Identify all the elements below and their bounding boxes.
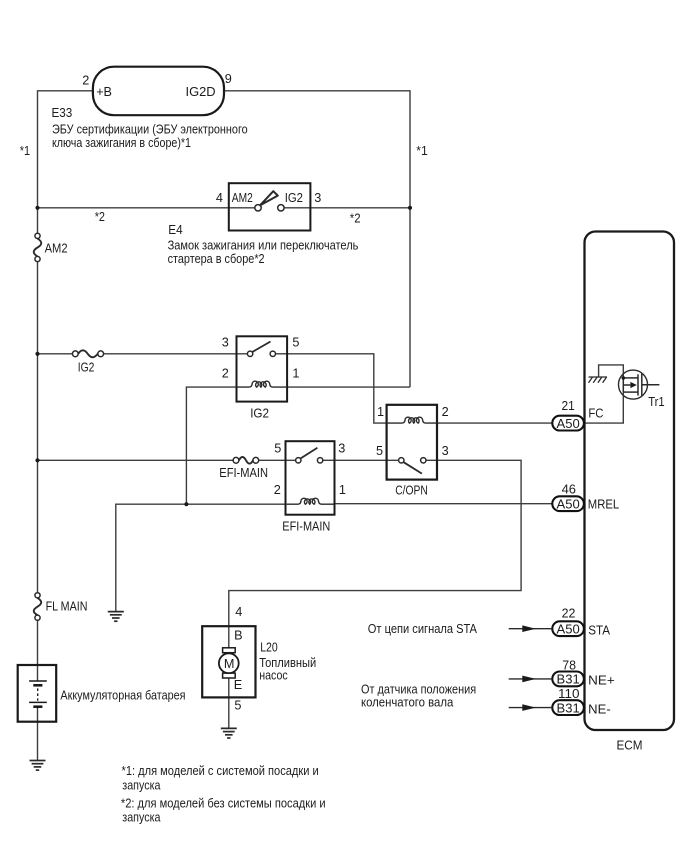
svg-text:*2: *2: [95, 210, 105, 224]
wire EFI-MAIN relay pin 1 to ECM MREL terminal: [335, 503, 554, 505]
relay EFI-MAIN switch: [296, 448, 323, 463]
wire C/OPN pin 3 to fuel pump pin 4: [229, 460, 521, 648]
svg-text:5: 5: [234, 699, 241, 713]
svg-text:2: 2: [274, 483, 281, 497]
svg-text:E33: E33: [52, 106, 73, 120]
svg-text:EFI-MAIN: EFI-MAIN: [282, 520, 330, 534]
ground battery: [30, 761, 46, 771]
wire IG2 relay pin 1 to IG2D rail: [287, 386, 410, 388]
transistor Q Tr1: [619, 370, 660, 399]
svg-text:IG2D: IG2D: [186, 85, 216, 99]
fuel pump L20 box: [202, 626, 255, 697]
wire FL MAIN to battery: [37, 621, 39, 682]
terminal B31 NE+: [552, 672, 584, 687]
wire E4 IG2 pin 3 to node: [284, 207, 410, 209]
ground fuel pump: [221, 728, 237, 738]
relay C/OPN box: [387, 405, 437, 480]
svg-text:IG2: IG2: [285, 191, 303, 205]
fuse EFI-MAIN: [233, 457, 259, 464]
svg-text:1: 1: [292, 366, 299, 380]
ground EFI-MAIN relay: [108, 612, 124, 622]
svg-text:M: M: [224, 657, 235, 671]
svg-text:От датчика положения: От датчика положения: [361, 682, 476, 696]
svg-text:2: 2: [82, 74, 89, 88]
svg-text:E4: E4: [168, 223, 182, 237]
arrow NE- input: [509, 704, 553, 711]
arrow NE+ input: [509, 676, 553, 683]
svg-text:5: 5: [376, 444, 383, 458]
ECM box: [585, 232, 675, 731]
svg-text:L20: L20: [260, 641, 278, 655]
svg-text:78: 78: [562, 658, 576, 672]
svg-text:FL MAIN: FL MAIN: [46, 600, 88, 614]
svg-text:насос: насос: [259, 669, 288, 683]
svg-text:A50: A50: [557, 623, 580, 637]
wire C/OPN coil pin 2 to ECM FC terminal: [437, 422, 553, 424]
wire left rail AM2 to FL MAIN: [37, 262, 39, 593]
svg-text:2: 2: [442, 405, 449, 419]
battery cell plates: [29, 681, 47, 707]
svg-text:110: 110: [558, 687, 580, 701]
svg-text:коленчатого вала: коленчатого вала: [361, 696, 454, 710]
wire C/OPN switch stub right: [426, 459, 437, 461]
wire fuel pump motor to ground: [228, 678, 230, 728]
svg-text:MREL: MREL: [588, 497, 619, 511]
svg-text:Аккумуляторная батарея: Аккумуляторная батарея: [60, 688, 185, 702]
svg-text:9: 9: [225, 72, 232, 86]
svg-text:AM2: AM2: [45, 241, 68, 255]
battery box: [18, 665, 57, 722]
svg-text:B: B: [234, 629, 242, 643]
relay C/OPN coil: [388, 417, 437, 423]
svg-text:запуска: запуска: [122, 778, 161, 792]
svg-text:22: 22: [562, 606, 576, 620]
relay IG2 coil: [237, 381, 288, 387]
svg-text:3: 3: [442, 444, 449, 458]
svg-text:Tr1: Tr1: [648, 395, 665, 409]
svg-text:Замок зажигания или переключат: Замок зажигания или переключатель: [168, 238, 359, 252]
wire EFI-MAIN pin 2 to ground branch: [116, 504, 286, 611]
arrow STA input: [509, 625, 553, 632]
terminal A50 STA: [552, 621, 584, 636]
terminal A50 MREL: [552, 496, 584, 511]
ECU E33 certification ECU box: [93, 67, 224, 116]
svg-text:IG2: IG2: [78, 361, 95, 375]
svg-text:C/OPN: C/OPN: [395, 484, 428, 498]
svg-text:E: E: [234, 678, 242, 692]
svg-text:3: 3: [314, 191, 321, 205]
svg-text:2: 2: [222, 366, 229, 380]
svg-text:4: 4: [216, 191, 223, 205]
svg-text:*2: для моделей без системы по: *2: для моделей без системы посадки и: [121, 796, 326, 810]
wire IG2 fuse branch: [38, 353, 73, 355]
wire EFI-MAIN pin 3 to C/OPN pin 5: [335, 459, 399, 461]
wire IG2 fuse to IG2 relay pin 3: [104, 353, 248, 355]
ignition switch E4 box: [229, 183, 311, 230]
svg-text:стартера в сборе*2: стартера в сборе*2: [168, 252, 265, 266]
fuse IG2: [72, 350, 103, 357]
fuel pump motor: [219, 648, 239, 678]
svg-text:*1: для моделей с системой пос: *1: для моделей с системой посадки и: [122, 764, 319, 778]
wire IG2 relay pin 2 to junction: [186, 387, 236, 504]
relay EFI-MAIN box: [286, 441, 335, 515]
fuse FL MAIN: [34, 593, 42, 621]
terminal B31 NE-: [552, 700, 584, 715]
svg-text:*1: *1: [416, 144, 428, 158]
svg-text:B31: B31: [557, 673, 580, 687]
svg-text:ЭБУ сертификации (ЭБУ электрон: ЭБУ сертификации (ЭБУ электронного: [52, 123, 248, 137]
wire IG2 relay switch stub right: [275, 353, 287, 355]
svg-text:3: 3: [222, 335, 229, 349]
wire FC terminal to transistor source: [584, 392, 624, 423]
svg-text:*2: *2: [350, 212, 361, 226]
wire IG2 relay pin 5 to C/OPN coil pin 1: [287, 354, 388, 423]
svg-text:A50: A50: [557, 498, 580, 512]
terminal A50 FC: [552, 416, 584, 431]
svg-text:5: 5: [274, 441, 281, 455]
svg-text:NE-: NE-: [588, 702, 611, 716]
svg-text:От цепи сигнала STA: От цепи сигнала STA: [368, 622, 478, 636]
svg-text:ключа зажигания в сборе)*1: ключа зажигания в сборе)*1: [52, 136, 191, 150]
svg-text:+B: +B: [96, 85, 112, 99]
relay IG2 box: [237, 336, 288, 401]
node transistor drain dot: [622, 376, 626, 380]
wire IG2D pin 9 down to IG2 relay pin 1: [224, 91, 410, 387]
svg-text:IG2: IG2: [250, 406, 269, 420]
wire EFI-MAIN fuse to relay pin 5: [258, 459, 295, 461]
fuse AM2: [34, 233, 42, 261]
relay IG2 switch: [247, 342, 275, 357]
svg-text:*1: *1: [20, 144, 30, 158]
svg-text:5: 5: [292, 335, 299, 349]
svg-text:1: 1: [377, 405, 384, 419]
svg-text:FC: FC: [588, 407, 603, 421]
svg-text:21: 21: [562, 399, 575, 413]
wire EFI-MAIN relay switch stub right: [323, 459, 335, 461]
svg-text:4: 4: [235, 605, 242, 619]
svg-text:1: 1: [339, 483, 346, 497]
svg-text:B31: B31: [557, 701, 580, 715]
svg-text:ECM: ECM: [617, 739, 643, 753]
wire node AM2 branch to E4 switch: [38, 207, 255, 209]
svg-text:46: 46: [562, 483, 576, 497]
ground chassis inside ECM: [589, 377, 608, 383]
wire +B to left rail: [38, 91, 94, 234]
wire Tr1 drain to internal ground: [599, 365, 624, 378]
svg-text:запуска: запуска: [122, 811, 161, 825]
switch E4 contacts: [255, 191, 284, 211]
wire battery to ground: [37, 707, 39, 761]
svg-text:3: 3: [338, 441, 345, 455]
node junction dots: [35, 206, 412, 507]
svg-text:AM2: AM2: [232, 191, 253, 205]
svg-text:STA: STA: [588, 624, 610, 638]
relay C/OPN switch: [399, 458, 426, 474]
svg-text:A50: A50: [557, 417, 580, 431]
svg-text:NE+: NE+: [588, 674, 615, 688]
relay EFI-MAIN coil: [286, 498, 334, 504]
svg-text:EFI-MAIN: EFI-MAIN: [219, 466, 268, 480]
wire EFI-MAIN fuse branch: [38, 459, 234, 461]
